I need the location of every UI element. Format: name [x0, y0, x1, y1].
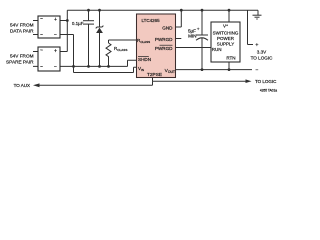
svg-text:RCLASS: RCLASS — [114, 46, 127, 52]
svg-text:~: ~ — [40, 33, 43, 39]
wire bridge2 plus riser — [60, 10, 67, 51]
wire VIN rail A to SHDN — [60, 60, 137, 66]
wire supply RTN lead — [228, 62, 230, 70]
svg-text:54V FROM: 54V FROM — [10, 23, 34, 28]
wire PWRGD stub — [176, 38, 182, 40]
ground — [253, 10, 262, 19]
svg-text:SHDN: SHDN — [138, 57, 151, 62]
label 54V FROM SPARE PAIR — [6, 54, 34, 65]
svg-text:SUPPLY: SUPPLY — [217, 42, 234, 47]
svg-text:PWRGD: PWRGD — [155, 37, 173, 42]
svg-text:MIN: MIN — [188, 33, 196, 38]
svg-text:+: + — [255, 43, 258, 49]
svg-text:0.1µF: 0.1µF — [72, 21, 84, 26]
wire GND pin riser — [176, 10, 182, 27]
label 54V FROM DATA PAIR — [10, 23, 34, 34]
wire bridge2 AC stubs — [33, 52, 38, 67]
svg-text:+: + — [54, 17, 57, 23]
wire VIN rail B to VIN pin — [74, 67, 137, 72]
svg-text:−: − — [256, 67, 259, 73]
svg-text:RUN: RUN — [212, 47, 222, 52]
IC U1 LTC4265 PD interface controller — [137, 14, 176, 78]
wire bridge1 plus stub — [60, 20, 67, 22]
wire capacitor C1 leads — [88, 10, 90, 66]
bridge rectifier BR2 (spare pair) — [38, 47, 60, 71]
wire 3.3V plus branch — [248, 10, 254, 44]
svg-text:SWITCHING: SWITCHING — [213, 31, 239, 36]
svg-text:~: ~ — [40, 65, 43, 71]
wire TO LOGIC line — [153, 80, 247, 82]
svg-text:VIN: VIN — [138, 66, 144, 72]
svg-text:PWRGD: PWRGD — [155, 46, 173, 51]
svg-text:RCLASS: RCLASS — [137, 38, 150, 44]
zener diode D1 — [96, 26, 104, 33]
node junction dots top rail — [66, 9, 231, 22]
svg-text:3.3V: 3.3V — [257, 49, 267, 54]
svg-text:~: ~ — [40, 48, 43, 54]
wire top rail GND net — [67, 9, 258, 11]
capacitor C1 0.1uF — [83, 21, 94, 24]
wire RCLASS pin to resistor — [109, 40, 137, 66]
svg-text:T2PSE: T2PSE — [147, 72, 162, 78]
wire PWRGDb to RUN — [176, 47, 212, 49]
wire VOUT line — [176, 69, 253, 71]
svg-text:4265 TA01a: 4265 TA01a — [260, 89, 277, 93]
switching power supply box — [211, 22, 240, 62]
bridge rectifier BR1 (data pair) — [38, 16, 60, 39]
label TO LOGIC with arrow — [246, 79, 252, 83]
svg-text:+: + — [197, 27, 200, 32]
svg-text:54V FROM: 54V FROM — [10, 54, 34, 59]
label 5uF MIN plus — [188, 28, 197, 38]
svg-text:TO LOGIC: TO LOGIC — [255, 79, 277, 84]
svg-text:TO LOGIC: TO LOGIC — [251, 55, 274, 60]
node junction dots VOUT line — [201, 68, 231, 71]
node junction dots VIN rail — [72, 65, 110, 68]
wire TO AUX line — [38, 81, 153, 85]
wire T2PSE stub — [152, 78, 154, 82]
svg-text:+: + — [54, 49, 57, 55]
svg-text:−: − — [54, 64, 57, 70]
resistor RCLASS — [106, 43, 111, 57]
svg-text:~: ~ — [40, 17, 43, 23]
svg-text:RTN: RTN — [226, 56, 235, 61]
svg-text:DATA PAIR: DATA PAIR — [10, 29, 34, 34]
wire capacitor C2 leads — [201, 10, 203, 69]
wire bridge1 AC stubs — [33, 21, 38, 35]
svg-text:POWER: POWER — [217, 36, 235, 41]
wire bridge1 minus riser — [60, 35, 74, 73]
svg-text:TO AUX: TO AUX — [14, 83, 30, 88]
svg-text:LTC4265: LTC4265 — [142, 18, 161, 23]
capacitor C2 5uF polarized — [196, 35, 208, 40]
svg-text:SPARE PAIR: SPARE PAIR — [6, 60, 34, 65]
svg-text:GND: GND — [162, 26, 173, 31]
wire zener leads — [99, 10, 101, 66]
wire supply V+ lead — [228, 10, 230, 22]
svg-text:−: − — [54, 32, 57, 38]
